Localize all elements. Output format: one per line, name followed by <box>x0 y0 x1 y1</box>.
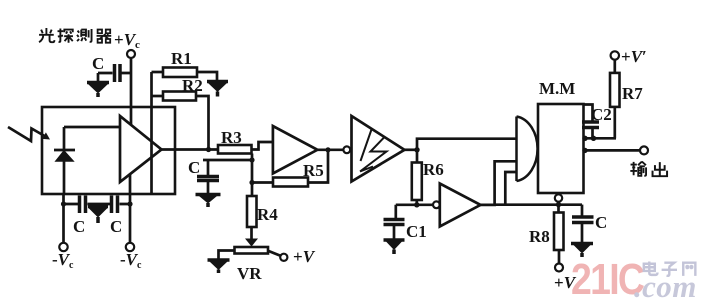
terminal +V at R8 <box>555 264 563 272</box>
node C2a <box>582 136 587 141</box>
wire R7 top <box>613 60 616 73</box>
wire R1 right to ground <box>197 72 217 80</box>
wire C2 bottom <box>591 128 594 139</box>
ground at C R8 <box>571 244 593 258</box>
svg-text:+V: +V <box>293 247 316 266</box>
label 光 <box>39 28 54 42</box>
wire R1 left <box>152 71 164 74</box>
svg-text:-Vc: -Vc <box>52 250 74 271</box>
node C2b <box>591 136 596 141</box>
capacitor C at +Vc <box>98 64 131 82</box>
label 器 <box>97 30 112 43</box>
svg-text:.com: .com <box>634 269 697 304</box>
wire timing line <box>584 137 617 140</box>
capacitor C1 <box>384 220 405 225</box>
buffer U4 <box>440 184 481 227</box>
node R8 junction <box>556 202 561 207</box>
wire decoupling row <box>64 203 131 206</box>
U3 hysteresis glyph <box>360 128 387 172</box>
op-amp U1 <box>120 116 162 182</box>
detector box <box>42 107 175 194</box>
wire VR left <box>219 251 235 259</box>
wire +Vc supply <box>130 58 133 125</box>
watermark 电 <box>644 262 658 275</box>
terminal -Vc right <box>126 243 134 251</box>
svg-text:+V′: +V′ <box>621 47 647 66</box>
wire C1 branch <box>396 205 417 218</box>
wiper arrowhead <box>245 239 258 247</box>
trigger bubble <box>555 194 562 201</box>
node output R2 <box>206 147 211 152</box>
resistor R8 <box>554 213 564 251</box>
wire cap C right branch <box>581 205 584 216</box>
terminal +V at VR <box>280 254 287 261</box>
wire C1 down <box>393 225 396 239</box>
photodiode D <box>54 127 75 194</box>
wire node B down <box>416 150 419 163</box>
terminal +Vc <box>127 50 135 58</box>
U3 input bubble <box>343 146 350 153</box>
terminal +V at R7 <box>611 51 619 59</box>
node U2 out <box>325 147 330 152</box>
wire C down <box>581 223 584 243</box>
svg-text:+Vc: +Vc <box>114 30 140 51</box>
ground at C1 <box>384 240 405 254</box>
resistor R6 <box>412 163 422 201</box>
wire R5 left <box>252 181 273 184</box>
wire U1 inverting input <box>64 126 120 129</box>
capacitor C at R8 <box>572 217 594 223</box>
resistor R7 <box>610 73 620 107</box>
ground at VR <box>208 260 230 273</box>
svg-text:C2: C2 <box>591 105 612 124</box>
node output <box>582 148 587 153</box>
wire R3 right jog <box>252 142 274 150</box>
svg-text:C: C <box>595 213 607 232</box>
capacitor C right pair <box>112 196 118 214</box>
svg-text:C1: C1 <box>406 222 427 241</box>
resistor R4 <box>247 196 257 227</box>
svg-text:R2: R2 <box>182 76 203 95</box>
wire -Vc supply right <box>129 174 132 244</box>
capacitor C at R3 <box>197 160 219 193</box>
light arrowhead <box>42 132 50 139</box>
svg-text:R8: R8 <box>529 227 550 246</box>
wire U4 output up <box>481 161 517 205</box>
gate D shape <box>517 117 538 182</box>
node A1 <box>249 157 254 162</box>
label 测 <box>77 29 91 42</box>
svg-text:C: C <box>92 54 104 73</box>
svg-text:M.M: M.M <box>539 79 575 98</box>
resistor R2 <box>163 92 196 101</box>
svg-text:C: C <box>188 158 200 177</box>
wire U2 output <box>317 148 343 151</box>
wire R5 right feedback <box>308 150 328 183</box>
wire C branch <box>203 159 252 162</box>
monostable M.M box <box>538 104 584 193</box>
wire R2 right down to output <box>196 96 209 150</box>
wire to buffer input <box>417 203 433 206</box>
capacitor C left pair <box>80 196 86 214</box>
ground at +Vc cap <box>87 83 109 98</box>
svg-text:R1: R1 <box>171 49 192 68</box>
light arrow <box>8 127 46 141</box>
wire node A vertical <box>251 154 254 197</box>
label 出 <box>653 162 668 176</box>
wire R6 bottom <box>415 200 418 205</box>
wire VR right <box>268 251 281 256</box>
U4 input bubble <box>433 201 440 208</box>
wire R7 lead <box>613 107 616 138</box>
svg-text:-Vc: -Vc <box>120 250 142 271</box>
ground right of R1 <box>207 82 228 97</box>
watermark 子 <box>662 263 677 276</box>
wire left cathode down <box>62 194 65 243</box>
svg-text:R4: R4 <box>257 205 278 224</box>
wire R2 left <box>152 95 164 98</box>
svg-text:R5: R5 <box>303 161 324 180</box>
wire C2 top <box>584 105 593 122</box>
resistor R3 <box>218 145 252 154</box>
resistor R1 <box>163 68 197 78</box>
wire R8 down <box>558 250 561 264</box>
svg-text:R7: R7 <box>622 84 643 103</box>
node A2 <box>249 180 254 185</box>
ground mid caps <box>88 207 108 224</box>
capacitor C2 <box>582 122 599 128</box>
wire output <box>584 149 641 152</box>
resistor R5 <box>273 178 308 187</box>
ground at C R3 <box>196 195 221 208</box>
wire feedback bottom <box>495 172 582 205</box>
schmitt trigger U3 <box>352 116 405 182</box>
wire U1 output <box>162 148 219 151</box>
svg-text:C: C <box>110 217 122 236</box>
node C1 junction <box>414 202 419 207</box>
svg-text:C: C <box>73 217 85 236</box>
svg-text:R6: R6 <box>423 160 444 179</box>
watermark 网 <box>683 263 695 276</box>
terminal -Vc left <box>59 243 67 251</box>
label 输 <box>630 162 646 176</box>
wire R4 to wiper <box>250 227 253 240</box>
wire R1R2 left vertical <box>150 72 153 194</box>
wire bubble to node <box>557 202 560 213</box>
node right -Vc <box>127 201 132 206</box>
wire node B up to gate <box>417 139 517 150</box>
op-amp U2 <box>273 126 318 174</box>
node left <box>61 201 66 206</box>
wire U3 output <box>405 148 418 151</box>
svg-text:R3: R3 <box>221 128 242 147</box>
potentiometer VR <box>235 247 269 254</box>
terminal output <box>640 146 648 154</box>
node B <box>414 147 419 152</box>
label 探 <box>58 29 73 43</box>
svg-text:VR: VR <box>237 264 262 283</box>
